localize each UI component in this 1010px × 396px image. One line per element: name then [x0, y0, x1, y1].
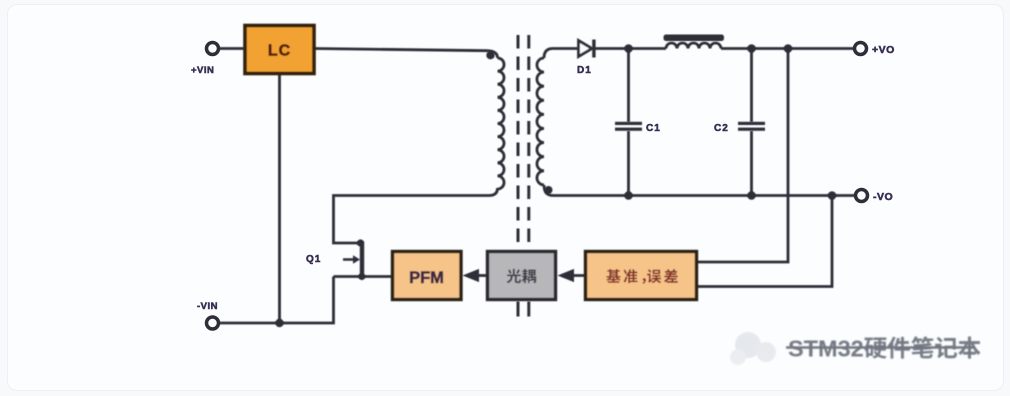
capacitor C1 wires: [627, 49, 630, 123]
wire secondary top to diode: [544, 49, 578, 59]
feedback wire upper (+VO sense): [697, 49, 789, 263]
arrow line feedback to opto: [567, 274, 585, 277]
terminal +VO: [855, 43, 867, 55]
MOSFET Q1 gate arrow: [343, 255, 360, 264]
feedback wire lower (-VO sense): [697, 196, 833, 287]
svg-text:Q1: Q1: [306, 254, 321, 265]
wire secondary bottom to -VO rail: [544, 185, 856, 196]
diode D1 triangle: [579, 41, 593, 57]
wire LC bottom down to -VIN rail: [278, 74, 281, 323]
junction node at MOSFET drain: [357, 239, 364, 246]
svg-text:-VO: -VO: [873, 191, 893, 203]
MOSFET Q1 channel bar: [360, 241, 364, 278]
svg-text:LC: LC: [268, 43, 291, 60]
svg-text:C1: C1: [646, 123, 661, 134]
block reference/error amp 基准,误差: [586, 252, 697, 300]
wire PFM output to MOSFET source node: [334, 275, 393, 278]
wire +VIN terminal to LC: [219, 47, 245, 50]
svg-text:+VO: +VO: [872, 44, 895, 56]
wire -VIN rail: [219, 277, 334, 324]
inductor L1 winding: [666, 43, 721, 49]
transformer T1 primary winding: [498, 58, 505, 189]
wire diode to inductor (top rail): [595, 47, 667, 50]
wire inductor to +VO terminal: [721, 47, 855, 50]
terminal +VIN: [207, 43, 219, 55]
block LC input filter: [245, 26, 314, 74]
junction node at C1 top: [624, 44, 633, 53]
terminal -VO: [856, 190, 868, 202]
transformer primary phase dot: [486, 51, 494, 59]
inductor L1 core bar: [664, 35, 725, 42]
junction node at C2 top: [747, 44, 756, 53]
arrowhead into PFM: [463, 269, 480, 282]
watermark logo blob: [730, 332, 776, 365]
svg-text:-VIN: -VIN: [197, 301, 218, 312]
wire LC to transformer primary top: [314, 49, 498, 59]
junction node at C1 bottom: [624, 191, 633, 200]
diode D1 cathode bar: [592, 40, 595, 58]
junction node at feedback bottom rail: [828, 191, 837, 200]
junction node at C2 bottom: [747, 191, 756, 200]
wire primary bottom to MOSFET drain rail: [334, 188, 498, 243]
junction node at LC/-VIN rail: [275, 319, 283, 327]
svg-text:D1: D1: [577, 65, 592, 76]
transformer secondary phase dot: [545, 186, 553, 194]
svg-text:+VIN: +VIN: [191, 65, 214, 76]
svg-text:PFM: PFM: [409, 269, 444, 287]
transformer T1 secondary winding: [537, 58, 544, 185]
arrowhead into opto: [558, 269, 575, 282]
junction node at MOSFET source: [358, 273, 365, 280]
capacitor C2 plates: [738, 122, 765, 125]
junction node at feedback top: [784, 44, 793, 53]
arrow line opto to PFM: [472, 274, 488, 277]
transformer core dashed lines: [517, 35, 520, 246]
watermark text STM32硬件笔记本: [786, 336, 981, 362]
capacitor C2 wires: [750, 49, 753, 123]
terminal -VIN: [207, 317, 219, 329]
svg-text:C2: C2: [714, 123, 729, 134]
block PFM controller: [393, 252, 462, 300]
block optocoupler 光耦: [488, 252, 556, 300]
capacitor C1 plates: [615, 122, 642, 125]
